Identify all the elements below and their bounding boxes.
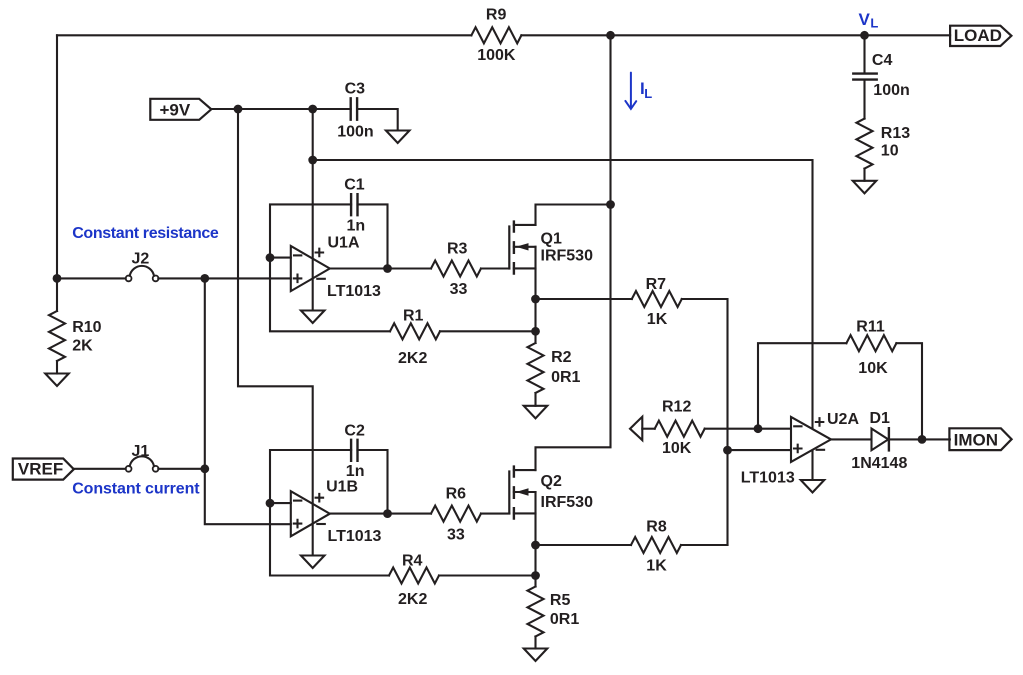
svg-text:33: 33 (450, 281, 468, 298)
wire D1 to IMON (890, 438, 950, 440)
wire left rail (56, 35, 58, 278)
current arrow IL (625, 73, 636, 109)
resistor R9 (471, 27, 521, 43)
ground under C3 (386, 131, 410, 144)
svg-text:R1: R1 (403, 307, 424, 324)
resistor R7 (632, 291, 682, 307)
connector +9V (150, 99, 211, 120)
ground under U1B (301, 556, 325, 569)
wire R4 left leg (270, 503, 389, 575)
svg-text:LT1013: LT1013 (328, 528, 382, 545)
junction R1 / R2 (531, 327, 540, 336)
wire R3 to Q1 gate (481, 267, 509, 269)
svg-text:33: 33 (447, 526, 465, 543)
wire Q1 drain to IL line (536, 205, 611, 225)
wire R4 to R5 node (439, 574, 536, 576)
wire Q2 source down (534, 492, 536, 576)
wire R11 right to output node (896, 343, 922, 439)
junction J1 / link / U1B +in (200, 464, 209, 473)
svg-text:0R1: 0R1 (550, 611, 579, 628)
junction U1B -in / C2 / R4 (266, 499, 275, 508)
input arrow at R12 (630, 417, 642, 441)
svg-text:R12: R12 (662, 398, 691, 415)
wire vertical link J2 to J1 to U1B (205, 278, 291, 524)
ground under R2 (524, 406, 548, 419)
wire C4 branch (863, 35, 865, 72)
wire U1B inverting stub (270, 502, 291, 504)
wire U1A inverting stub (270, 257, 291, 259)
svg-text:1N4148: 1N4148 (851, 455, 907, 472)
svg-text:IRF530: IRF530 (541, 494, 594, 511)
capacitor C3 (351, 98, 357, 119)
wire J1 to node (158, 468, 205, 470)
svg-text:VREF: VREF (18, 460, 63, 479)
wire R7 row (536, 298, 632, 300)
svg-text:R13: R13 (881, 125, 910, 142)
resistor R6 (431, 506, 481, 522)
wire J2 row left (57, 277, 126, 279)
capacitor C4 (853, 74, 876, 80)
ground under R13 (853, 181, 877, 194)
wire C4 to R13 (863, 81, 865, 119)
svg-text:2K: 2K (72, 337, 93, 354)
wire R7 to U2A noninv (682, 299, 728, 545)
svg-text:100n: 100n (337, 123, 373, 140)
resistor R13 (857, 119, 873, 169)
wire R2 bottom lead (534, 393, 536, 406)
wire U1A supply vertical (312, 109, 314, 311)
svg-text:D1: D1 (870, 410, 891, 427)
svg-text:R7: R7 (646, 276, 667, 293)
wire R2 top lead (534, 331, 536, 343)
svg-text:Q1: Q1 (541, 231, 562, 248)
svg-text:1n: 1n (346, 463, 365, 480)
wire R12 to U2A inv node (705, 428, 758, 430)
junction D1 / R11 / IMON (918, 435, 927, 444)
resistor R3 (431, 261, 481, 277)
wire R10 top lead (56, 278, 58, 311)
wire VREF to J1 (74, 468, 126, 470)
svg-text:1K: 1K (647, 311, 668, 328)
wire R11 feedback (758, 343, 846, 429)
wire U2A noninv stub (728, 449, 792, 451)
resistor R1 (390, 323, 440, 339)
resistor R10 (49, 311, 65, 361)
junction Q1 drain / IL line (606, 200, 615, 209)
svg-text:J1: J1 (132, 443, 150, 460)
svg-text:R11: R11 (856, 319, 885, 336)
node VL junction (860, 31, 869, 40)
junction R4 / R5 (531, 571, 540, 580)
junction J2 / link to J1 / U1A +in (200, 274, 209, 283)
wire C1 feedback box (270, 204, 388, 268)
junction U1A -in / C1 / R1 (266, 253, 275, 262)
wire U2A output to D1 (831, 438, 871, 440)
wire U1B supply branch (238, 109, 313, 556)
svg-text:10K: 10K (858, 360, 888, 377)
junction U1B output / C2 (383, 509, 392, 518)
svg-text:U1B: U1B (326, 479, 358, 496)
junction top rail / IL line (606, 31, 615, 40)
jumper J2 (126, 276, 132, 282)
resistor R4 (389, 568, 439, 584)
svg-text:10: 10 (881, 143, 899, 160)
svg-text:LT1013: LT1013 (327, 283, 381, 300)
wire R13 bottom lead (863, 169, 865, 181)
svg-text:1K: 1K (646, 558, 667, 575)
wire U2A inv stub (758, 428, 791, 430)
svg-text:2K2: 2K2 (398, 591, 427, 608)
svg-text:LOAD: LOAD (954, 26, 1002, 45)
wire U1A output row (330, 267, 431, 269)
svg-text:LT1013: LT1013 (741, 469, 795, 486)
wire top rail left of R9 (57, 34, 471, 36)
capacitor C2 (351, 440, 357, 461)
svg-text:R9: R9 (486, 7, 507, 24)
junction Q2 source / R8 (531, 541, 540, 550)
junction left rail / R10 / J2 (53, 274, 62, 283)
svg-text:U1A: U1A (328, 235, 360, 252)
svg-text:100K: 100K (477, 47, 516, 64)
resistor R11 (846, 335, 896, 351)
wire C3 to ground (357, 109, 398, 131)
op-amp U1A (291, 246, 330, 291)
connector VREF (13, 459, 74, 480)
svg-text:IMON: IMON (954, 430, 998, 449)
svg-text:C3: C3 (345, 81, 366, 98)
junction Q1 source / R7 (531, 295, 540, 304)
ground under R5 (524, 649, 548, 662)
wire R5 bottom lead (534, 637, 536, 649)
connector IMON (949, 428, 1011, 450)
svg-text:100n: 100n (873, 82, 909, 99)
svg-text:R10: R10 (72, 319, 101, 336)
svg-text:C2: C2 (344, 422, 365, 439)
resistor R8 (631, 537, 681, 553)
svg-text:C1: C1 (344, 177, 365, 194)
op-amp U1B (291, 491, 330, 536)
wire +9V to U2A supply (313, 160, 813, 480)
transistor Q2 (508, 472, 510, 514)
svg-text:2K2: 2K2 (398, 350, 427, 367)
svg-text:C4: C4 (872, 52, 893, 69)
wire R1 to R2 node (440, 330, 536, 332)
ground under R10 (45, 374, 69, 387)
svg-text:+9V: +9V (160, 100, 191, 119)
wire Q1 source down (534, 247, 536, 331)
svg-text:10K: 10K (662, 440, 692, 457)
wire J2 row right to U1A +in (158, 277, 290, 279)
diode D1 (872, 429, 889, 451)
svg-text:IRF530: IRF530 (541, 248, 594, 265)
svg-text:1n: 1n (347, 218, 366, 235)
wire R5 top lead (534, 576, 536, 587)
svg-text:Constant current: Constant current (72, 481, 200, 498)
connector LOAD (950, 26, 1011, 46)
resistor R12 (655, 421, 705, 437)
wire R8 right lead (681, 544, 728, 546)
transistor Q1 (508, 227, 510, 269)
wire R6 to Q2 gate (481, 513, 509, 515)
wire C2 feedback box (270, 450, 388, 514)
junction U2A +in / R7 / R8 (723, 446, 732, 455)
svg-text:R8: R8 (646, 519, 667, 536)
junction +9V rail / U1B supply branch (234, 105, 243, 114)
wire R10 bottom lead (56, 361, 58, 374)
wire IL vertical and to Q2 drain (536, 35, 611, 470)
jumper J1 (126, 466, 132, 472)
wire +9V row (211, 108, 350, 110)
op-amp U2A (791, 417, 831, 462)
svg-text:Q2: Q2 (541, 473, 562, 490)
wire R8 row (536, 544, 632, 546)
wire U1B output row (330, 513, 431, 515)
wire R12 left lead (642, 428, 654, 430)
capacitor C1 (351, 194, 357, 215)
svg-text:L: L (870, 16, 878, 31)
junction U1A supply / U2A supply line (308, 156, 317, 165)
svg-text:L: L (644, 86, 652, 101)
svg-text:R3: R3 (447, 241, 468, 258)
svg-text:R6: R6 (446, 486, 467, 503)
ground under U2A (801, 480, 825, 493)
ground under U1A (301, 311, 325, 324)
svg-text:0R1: 0R1 (551, 369, 580, 386)
svg-text:R5: R5 (550, 592, 571, 609)
resistor R2 (528, 343, 544, 393)
svg-text:J2: J2 (132, 250, 150, 267)
wire R1 left leg (270, 258, 390, 332)
svg-text:R4: R4 (402, 552, 423, 569)
svg-text:Constant resistance: Constant resistance (72, 225, 219, 242)
svg-text:V: V (859, 10, 871, 29)
junction U1A output / C1 (383, 264, 392, 273)
svg-text:R2: R2 (551, 349, 572, 366)
junction U2A -in / R12 / R11 (754, 424, 763, 433)
wire top rail right of R9 (521, 34, 950, 36)
resistor R5 (528, 587, 544, 637)
svg-text:U2A: U2A (827, 411, 859, 428)
junction +9V rail / U1A supply (308, 105, 317, 114)
